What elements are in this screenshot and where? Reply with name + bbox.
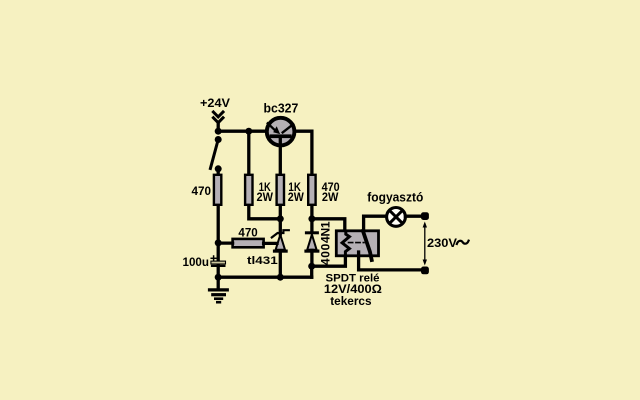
shunt regulator U1 tl431 anode bar [273, 250, 288, 253]
svg-text:tl431: tl431 [247, 255, 278, 267]
junction node 1K top [245, 128, 252, 135]
junction node D1 anode / coil [308, 263, 315, 270]
svg-text:4: 4 [319, 258, 333, 265]
diode D1 cathode bar [305, 231, 319, 234]
lamp body [387, 208, 406, 227]
junction node row / 1N4004 [308, 215, 315, 222]
switch arm (open) [210, 140, 218, 169]
svg-text:230V: 230V [427, 238, 457, 250]
diode D1 anode bar [304, 250, 319, 253]
svg-text:0: 0 [319, 251, 333, 258]
transistor emitter diagonal with arrow [268, 123, 275, 129]
svg-text:fogyasztó: fogyasztó [367, 191, 423, 205]
svg-text:tekercs: tekercs [330, 294, 372, 308]
relay K1 body [336, 231, 378, 256]
wire R4 bottom to row [310, 206, 313, 219]
wire cap to bottom rail [217, 266, 220, 277]
bottom rail wire [218, 276, 312, 279]
svg-text:bc327: bc327 [264, 102, 299, 116]
label 1N4004 vertical [319, 221, 333, 265]
wire transistor right to R4 [294, 131, 312, 175]
wire row to relay coil top [312, 219, 345, 231]
svg-text:2W: 2W [257, 190, 274, 204]
wire transistor base down [279, 138, 282, 176]
svg-text:470: 470 [238, 225, 258, 239]
wire relay common to bottom terminal [359, 252, 425, 270]
capacitor plus sign [211, 256, 216, 261]
svg-text:+24V: +24V [200, 96, 230, 110]
shunt regulator U1 tl431 triangle [276, 235, 285, 250]
svg-text:470: 470 [192, 184, 212, 198]
junction node tl431 anode [277, 274, 284, 281]
wire lamp to top terminal [405, 215, 424, 218]
wire tl431 cathode lead [279, 219, 282, 234]
resistor R3 1K 2W [277, 175, 284, 205]
svg-text:N: N [319, 228, 333, 237]
wire 1K top lead [247, 131, 250, 175]
ground [210, 277, 228, 302]
junction node base row / tl431 [277, 215, 284, 222]
wire R5 left lead [218, 241, 232, 244]
relay actuator dashed link [349, 242, 365, 244]
wire tl431 anode to bottom rail [279, 252, 282, 278]
junction node rail/emitter [215, 128, 222, 135]
switch top terminal [215, 136, 222, 143]
transistor collector diagonal [283, 124, 294, 132]
diode D1 triangle [307, 234, 316, 249]
junction node R5 left [215, 239, 222, 246]
diode D1 1N4004 cathode lead [310, 219, 313, 232]
wire top rail to transistor [218, 130, 266, 133]
shunt regulator U1 tl431 adjust tick [272, 230, 289, 237]
wire R3 bottom to row [279, 206, 282, 219]
dimension arrow 230V [423, 222, 427, 266]
relay switch arm [363, 231, 372, 260]
svg-text:1: 1 [319, 221, 333, 228]
transistor Q1 bc327 body [267, 118, 295, 146]
wire supply to top rail [217, 123, 220, 132]
resistor R2 1K 2W [245, 175, 252, 205]
resistor R1 470 [214, 175, 221, 205]
wire switch to R1 [217, 169, 220, 175]
svg-text:0: 0 [319, 243, 333, 250]
resistor R5 470 horizontal [233, 239, 264, 247]
terminal 230V bottom [421, 267, 429, 275]
wire R2 bottom elbow to row [249, 206, 280, 219]
wire relay NO contact up to lamp [364, 216, 387, 231]
wire R5 right lead to tl431 ref [264, 242, 277, 245]
transistor base bar [270, 134, 292, 138]
wire node to bottom rail riser [310, 266, 313, 277]
junction node ground [215, 274, 222, 281]
svg-text:100u: 100u [183, 255, 210, 269]
lamp X cross [390, 211, 403, 224]
svg-text:4: 4 [319, 236, 333, 243]
switch bottom terminal [215, 165, 222, 172]
wire R1 bottom down left rail [217, 206, 220, 261]
relay coil zigzag [342, 231, 349, 256]
capacitor C1 100u plates [211, 261, 226, 264]
svg-text:2W: 2W [322, 190, 339, 204]
svg-text:SPDT relé: SPDT relé [326, 272, 380, 284]
svg-text:2W: 2W [288, 190, 305, 204]
wire node to relay coil bottom [312, 256, 346, 266]
terminal 230V top [421, 212, 429, 220]
resistor R4 470 2W [308, 175, 315, 205]
wire D1 anode to node [310, 250, 313, 266]
supply +24V double chevron [213, 112, 223, 123]
